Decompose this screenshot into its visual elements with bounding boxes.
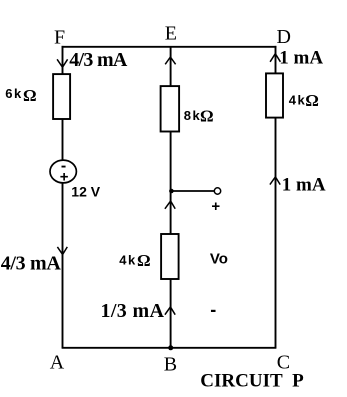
junction dot at mid node xyxy=(169,189,174,194)
wire: resistor 8k to junction and to resistor 4k mid xyxy=(170,132,172,235)
svg-text:D: D xyxy=(277,26,291,48)
resistor R2 8kohm xyxy=(161,86,180,131)
wire: D corner down to resistor 4k right xyxy=(275,46,277,74)
wire: F corner down to resistor 6k xyxy=(62,46,64,74)
svg-text:E: E xyxy=(165,23,177,45)
junction dot at node B xyxy=(168,345,173,350)
svg-text:Ω: Ω xyxy=(200,106,214,125)
svg-text:4k: 4k xyxy=(119,252,136,267)
wire: junction to open terminal xyxy=(171,190,214,192)
svg-text:4k: 4k xyxy=(289,92,306,107)
wire: top horizontal F-E-D xyxy=(62,46,277,48)
resistor R1 6kohm xyxy=(53,74,70,119)
svg-text:F: F xyxy=(54,26,65,48)
svg-text:CIRCUIT P: CIRCUIT P xyxy=(200,370,304,391)
svg-text:12 V: 12 V xyxy=(71,183,100,199)
svg-text:6k: 6k xyxy=(5,86,22,101)
voltage source V1 circle xyxy=(50,160,76,183)
open circle terminal xyxy=(214,188,220,194)
svg-text:1 mA: 1 mA xyxy=(282,175,326,196)
current arrow (up) above B xyxy=(165,307,175,315)
resistor R4 4kohm (right) xyxy=(266,73,283,117)
current arrow (up) below E xyxy=(165,57,175,64)
resistor R3 4kohm (middle) xyxy=(161,234,179,279)
wire: resistor 4k mid to node B xyxy=(170,279,172,348)
svg-text:8k: 8k xyxy=(184,108,201,123)
svg-text:-: - xyxy=(210,299,216,319)
svg-text:Vo: Vo xyxy=(210,250,228,267)
wire: resistor 4k right to node C xyxy=(275,118,277,348)
current arrow 4/3 mA (down) above A xyxy=(57,247,67,255)
wire: E down to resistor 8k xyxy=(170,47,172,86)
svg-text:A: A xyxy=(50,351,65,373)
svg-text:4/3 mA: 4/3 mA xyxy=(1,253,62,275)
svg-text:1 mA: 1 mA xyxy=(279,48,323,69)
svg-text:4/3 mA: 4/3 mA xyxy=(69,49,128,71)
svg-text:1/3 mA: 1/3 mA xyxy=(101,300,165,322)
svg-text:+: + xyxy=(211,198,220,215)
svg-text:Ω: Ω xyxy=(305,91,319,110)
current arrow (up) below D xyxy=(270,54,280,62)
svg-text:B: B xyxy=(164,353,177,375)
current arrow (up) below junction xyxy=(165,201,175,209)
wire: voltage source to node A xyxy=(62,183,64,348)
current arrow (up) mid right xyxy=(270,177,280,185)
svg-text:Ω: Ω xyxy=(23,86,37,105)
svg-text:Ω: Ω xyxy=(137,251,151,270)
wire: resistor 6k to voltage source xyxy=(62,119,64,160)
svg-text:+: + xyxy=(60,168,69,185)
wire: bottom horizontal A-B-C xyxy=(62,347,277,349)
current arrow 4/3 mA (down) below F xyxy=(57,59,68,67)
